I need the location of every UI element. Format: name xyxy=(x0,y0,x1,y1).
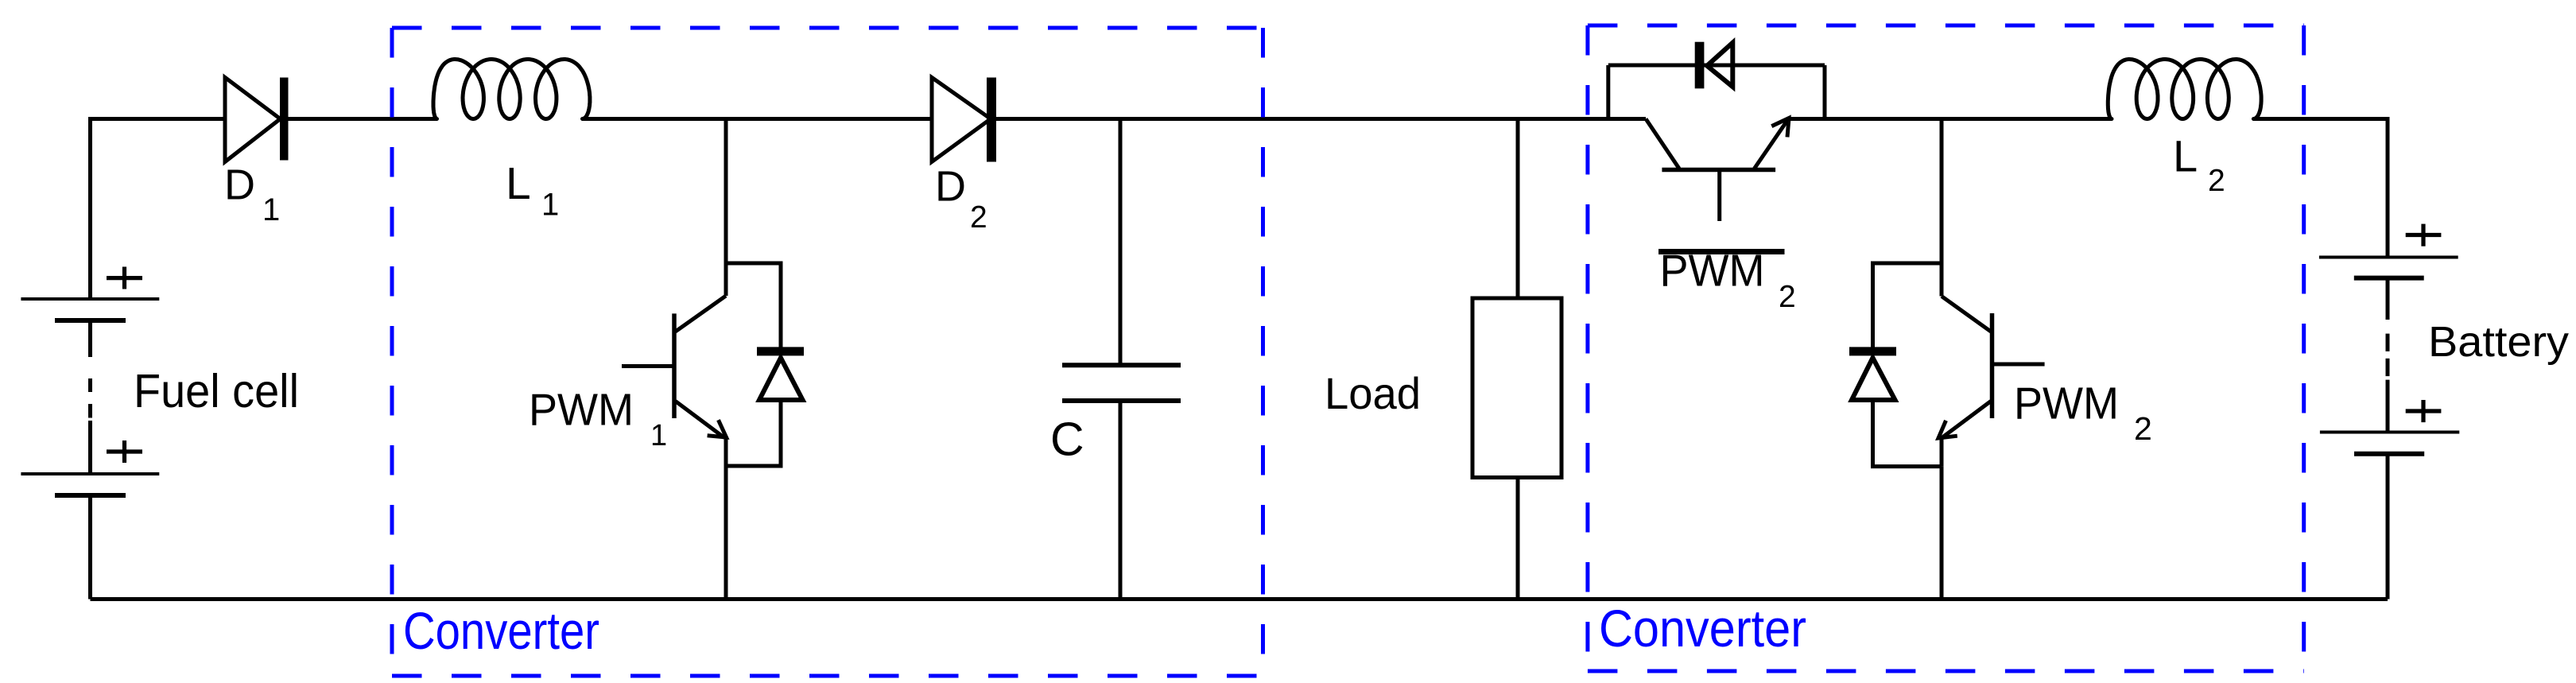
wire: bottom bus xyxy=(91,597,2388,601)
fuel cell symbol xyxy=(21,267,159,496)
fuel cell plus sign 1 xyxy=(107,276,142,280)
wire: L2 to battery top corner xyxy=(2253,119,2388,258)
battery plate: cell 1 short (-) xyxy=(2354,276,2424,281)
svg-text:2: 2 xyxy=(1779,280,1796,314)
wire: right rail battery lower section xyxy=(2386,454,2390,600)
transistor Q1 (IGBT, PWM1) xyxy=(622,119,781,600)
Q3 emitter lead xyxy=(1942,402,1992,438)
Q3 base bar xyxy=(1990,313,1995,418)
wire: load branch to bottom bus xyxy=(1516,478,1520,600)
svg-text:D: D xyxy=(935,163,966,211)
capacitor C xyxy=(1062,119,1181,600)
fuel cell plate: cell 2 short (-) xyxy=(55,493,126,498)
Q2 emitter arrowhead xyxy=(1771,118,1789,138)
Q1 base bar xyxy=(672,313,677,418)
wire: Q1 bottom branch from diode xyxy=(726,401,781,466)
transistor Q3 (IGBT, PWM2, bottom of converter 2) xyxy=(1873,119,2045,600)
battery plate: cell 2 short (-) xyxy=(2354,452,2424,456)
svg-text:D: D xyxy=(224,161,255,209)
fuel cell plate: cell 1 short (-) xyxy=(55,318,126,323)
battery plus sign 2 xyxy=(2406,409,2442,413)
svg-text:2: 2 xyxy=(2134,410,2152,447)
Q2 emitter lead xyxy=(1755,121,1788,169)
wire: C branch to bottom bus xyxy=(1119,401,1123,600)
svg-text:1: 1 xyxy=(650,419,667,452)
wire: load branch from top bus xyxy=(1516,119,1520,299)
Q3 collector lead xyxy=(1942,297,1991,332)
diode D4 (Q2 antiparallel, points left) xyxy=(1695,42,1705,89)
inductor L2 xyxy=(2108,60,2261,119)
wire: Q3 bottom branch from diode xyxy=(1873,401,1942,467)
diode D2 xyxy=(932,77,996,161)
Q1 collector lead xyxy=(676,296,727,332)
svg-text:2: 2 xyxy=(2208,164,2225,198)
inductor L1 xyxy=(433,60,590,119)
Q2 base lead xyxy=(1717,170,1721,222)
wire: Q3 trunk to bottom bus xyxy=(1940,467,1944,600)
wire: C branch from top bus xyxy=(1119,119,1123,366)
diode D5 (Q3 antiparallel) xyxy=(1849,347,1896,355)
load rectangle xyxy=(1472,298,1562,478)
svg-text:L: L xyxy=(506,158,531,209)
Q2 collector lead from bus xyxy=(1646,119,1679,169)
svg-text:1: 1 xyxy=(541,188,559,223)
Q1 base lead xyxy=(622,364,674,368)
label PWM2-bar (inverted PWM2) xyxy=(1658,249,1785,254)
diode D1 xyxy=(225,77,289,161)
battery plate: cell 2 long (+) xyxy=(2320,431,2459,434)
wire: top bus, left rail corner to D1 anode xyxy=(91,119,226,300)
wire: Q1 top branch to antiparallel diode xyxy=(726,263,781,348)
fuel cell plate: cell 1 long (+) xyxy=(21,297,159,301)
diode D3 (Q1 antiparallel) xyxy=(757,347,804,355)
Q3 emitter arrowhead xyxy=(1938,421,1957,438)
svg-text:2: 2 xyxy=(970,200,987,235)
wire: fuel cell mid dashed link xyxy=(88,320,92,357)
Q2 base bar xyxy=(1662,168,1775,173)
svg-text:Load: Load xyxy=(1325,368,1421,418)
wire: Q2 antiparallel path right riser xyxy=(1823,65,1827,119)
wire: battery mid dashed link xyxy=(2386,278,2390,320)
Q1 emitter lead xyxy=(676,402,725,438)
Q1 emitter arrowhead xyxy=(708,420,727,437)
wire: Q1 trunk upper segment xyxy=(724,263,728,296)
svg-text:C: C xyxy=(1050,413,1084,466)
svg-text:PWM: PWM xyxy=(2014,378,2119,429)
battery plate: cell 1 long (+) xyxy=(2319,256,2458,259)
wire: Q1 emitter trunk to bottom branch xyxy=(724,437,728,466)
fuel cell plate: cell 2 long (+) xyxy=(21,472,159,475)
converter box 2 (dashed) xyxy=(1588,25,2304,671)
svg-text:PWM: PWM xyxy=(1660,246,1765,297)
wire: D2 cathode to Q2-collector break (junctions at C node 1409, load node 1909) xyxy=(995,117,1646,121)
capacitor C top plate xyxy=(1062,363,1181,367)
wire: D1 cathode to L1 xyxy=(286,117,437,121)
wire: left rail fuel-cell lower section xyxy=(88,495,92,600)
wire: Q1 collector trunk from top bus xyxy=(724,119,728,264)
load R xyxy=(1472,119,1562,600)
capacitor C bottom plate xyxy=(1062,398,1181,403)
svg-text:Battery: Battery xyxy=(2428,318,2569,366)
svg-text:L: L xyxy=(2173,130,2198,180)
battery symbol xyxy=(2319,224,2459,454)
wire: Q3 emitter trunk to bottom branch xyxy=(1940,437,1944,467)
converter box 1 (dashed) xyxy=(392,28,1263,676)
Q3 base lead xyxy=(1992,363,2045,367)
svg-text:Converter: Converter xyxy=(1599,599,1806,658)
transistor Q2 (IGBT, PWM2-bar, top of converter 2) xyxy=(1608,65,1825,221)
svg-text:Fuel cell: Fuel cell xyxy=(134,365,299,417)
wire: Q3 top branch to antiparallel diode xyxy=(1873,263,1942,348)
wire: L1 to D2 anode (junction at node A x=913) xyxy=(582,117,932,121)
wire: Q1 trunk to bottom bus xyxy=(724,466,728,600)
wire: Q2 antiparallel path left riser xyxy=(1606,65,1610,119)
wire: Q2 antiparallel path top run xyxy=(1608,64,1825,68)
svg-text:PWM: PWM xyxy=(529,384,634,435)
svg-text:Converter: Converter xyxy=(403,601,599,660)
battery plus sign 1 xyxy=(2406,233,2442,237)
wire: Q3 collector trunk from top bus xyxy=(1940,119,1944,297)
svg-text:1: 1 xyxy=(262,192,280,227)
wire: top bus right of Q2-top emitter to battery corner xyxy=(1787,117,2112,121)
fuel cell plus sign 2 xyxy=(107,449,142,453)
